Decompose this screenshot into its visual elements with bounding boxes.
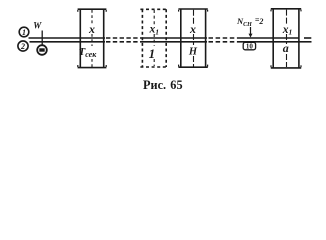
wire: bottom shaft solid segment from node 2 to block X bbox=[30, 41, 106, 43]
svg-text:x: x bbox=[88, 22, 95, 36]
svg-text:W: W bbox=[33, 21, 42, 31]
svg-text:65: 65 bbox=[170, 78, 182, 92]
wire: bottom shaft dashed segment between block X and dashed block bbox=[106, 41, 141, 43]
node 2 (circled 2, bottom shaft label) bbox=[18, 41, 28, 51]
box 10 (counter box under shaft) bbox=[243, 42, 255, 50]
svg-text:10: 10 bbox=[246, 43, 254, 51]
motor M (circle with solid core) bbox=[37, 45, 47, 55]
wire: top shaft solid segment through block a bbox=[239, 37, 300, 39]
wire: top shaft dashed segment after block H bbox=[209, 37, 239, 39]
wire: top shaft solid segment through dashed block and block H bbox=[141, 37, 207, 39]
wire: bottom shaft dashed segment after block H bbox=[209, 41, 239, 43]
wire: input tick from W down to shaft and motor bbox=[41, 31, 43, 46]
svg-text:x: x bbox=[189, 22, 196, 36]
wire: arrow from Nсн label down to shaft bbox=[249, 27, 253, 38]
wire: bottom shaft solid segment through dashed block and block H bbox=[141, 41, 207, 43]
svg-text:a: a bbox=[283, 41, 289, 55]
svg-text:H: H bbox=[188, 47, 198, 58]
wire: bottom shaft end segment at right bbox=[299, 41, 312, 43]
svg-text:1: 1 bbox=[149, 46, 156, 61]
block U2 (dashed: x1) bbox=[140, 9, 168, 67]
wire: top shaft solid segment from node 1 to block X bbox=[29, 37, 106, 39]
svg-text:2: 2 bbox=[20, 42, 25, 51]
block U1 (x / Tсек) bbox=[78, 9, 107, 67]
svg-text:Рис.: Рис. bbox=[143, 78, 166, 92]
wire: top shaft end dash at right bbox=[304, 37, 311, 39]
block U4 (x1 / a) bbox=[271, 9, 301, 68]
block U3 (x / H) bbox=[178, 9, 207, 67]
wire: bottom shaft solid segment through block a bbox=[239, 41, 300, 43]
wire: top shaft dashed segment between block X and dashed block bbox=[106, 37, 141, 39]
node 1 (circled 1, top shaft label) bbox=[19, 27, 29, 37]
svg-text:1: 1 bbox=[22, 28, 26, 37]
